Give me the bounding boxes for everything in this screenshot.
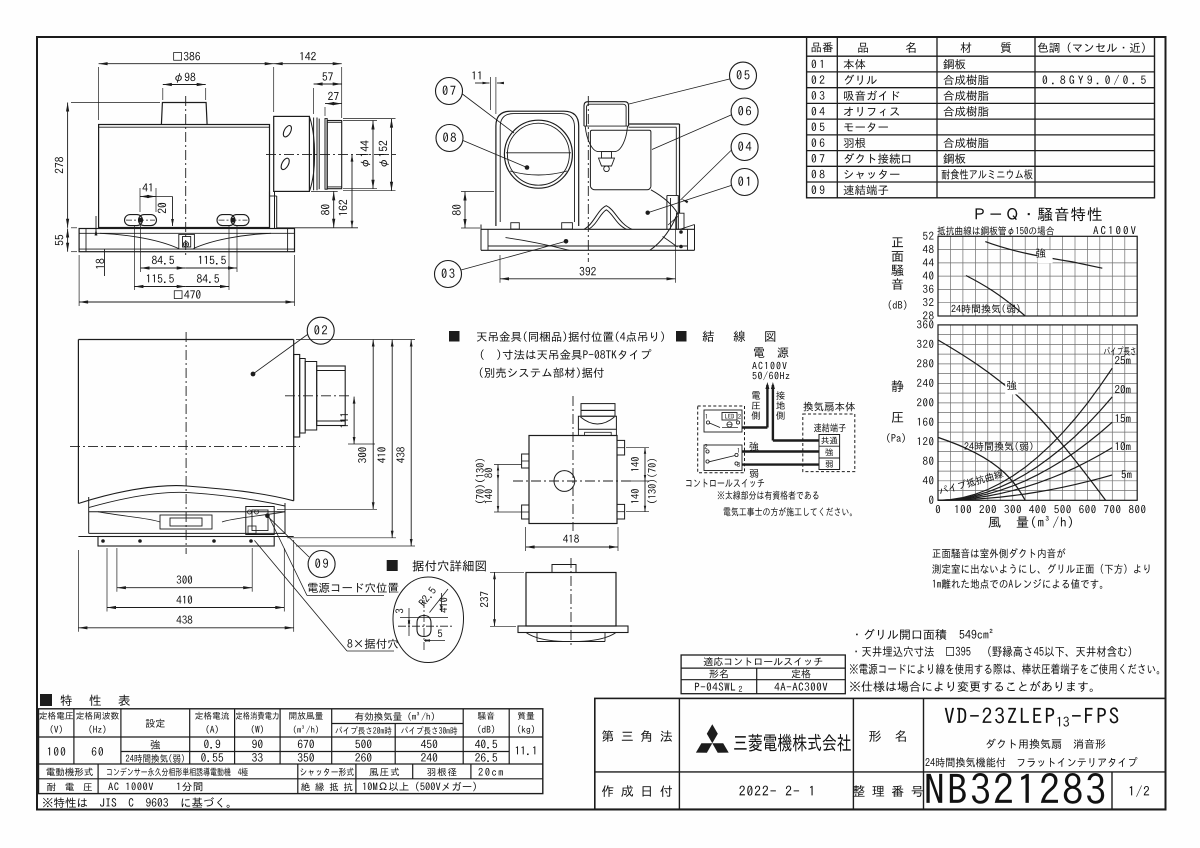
pipe resistance curve 5m [938, 475, 1112, 500]
detail dim 5 [424, 640, 445, 642]
label 形名 [869, 730, 906, 742]
dim 27 [325, 103, 342, 105]
balloon 09 [308, 551, 335, 578]
switch upper contact box [704, 410, 742, 432]
noise chart y labels [923, 311, 934, 319]
switch lower contact box [704, 445, 742, 471]
graph caption AC100V [1093, 226, 1135, 234]
model desc line1 [986, 739, 1105, 749]
section view scroll outlet curve [651, 190, 678, 213]
characteristics title [40, 694, 52, 706]
balloon 03 leader [461, 241, 566, 270]
label 8x据付穴 [347, 638, 397, 648]
section view centerline [587, 96, 589, 262]
dim 386 [99, 63, 274, 65]
note ceiling hole [855, 646, 1131, 657]
detail header [387, 560, 398, 571]
hanger plan centerlines [572, 396, 574, 531]
dim 300 bottom [117, 587, 252, 589]
balloon 02 leader [253, 335, 308, 375]
wiring note header [676, 331, 687, 342]
wiring note line1 [718, 491, 819, 500]
plan view pipe centerline [285, 395, 352, 397]
model desc line2 [925, 757, 1137, 767]
dim 115.5 84.5 row2 [134, 286, 185, 288]
balloon 01 [731, 169, 758, 196]
dim 18 tick [95, 216, 97, 233]
note grille opening area [856, 629, 992, 640]
pipe curve label 5m [1122, 470, 1132, 478]
noise y-axis label 正面騒音(dB) [892, 237, 903, 247]
pipe resistance curve 10m [938, 448, 1112, 501]
pipe curves label パイプ長さ [1104, 346, 1135, 355]
characteristics table data [48, 747, 65, 756]
balloon 04 leader [681, 151, 732, 201]
noise measurement note [933, 548, 1066, 558]
balloon 01 leader [648, 186, 731, 213]
dim 140 right upper [644, 448, 646, 481]
section view motor [584, 102, 629, 126]
dim 80 section [464, 192, 466, 229]
front view grille flange [79, 229, 294, 252]
front view body right step [269, 191, 271, 228]
hanger bracket note [449, 331, 460, 342]
dim (70)(130) left [475, 459, 484, 503]
mounting hole detail figure [393, 577, 464, 663]
pressure curve strong [938, 340, 1106, 500]
front view duct adapter [274, 116, 310, 191]
dim 11 [475, 82, 490, 84]
wire strong [742, 450, 819, 452]
dim 111 [353, 397, 355, 444]
pressure chart grid [937, 325, 939, 500]
small side view [552, 565, 576, 573]
balloon 05 leader [629, 79, 730, 104]
adapter centerline [266, 154, 396, 156]
section view shutter outlet [667, 195, 679, 197]
front view centerline [185, 96, 187, 258]
pressure curve strong label 強 [1005, 382, 1018, 394]
balloon 07 leader [462, 94, 514, 133]
plan view duct pipe [294, 355, 300, 438]
pipe curve label 10m [1116, 442, 1131, 450]
balloon 07 [436, 78, 463, 105]
detail label R2.5 [418, 586, 437, 607]
wiring caption コントロールスイッチ [686, 479, 764, 488]
dim 410 bottom [107, 607, 284, 609]
characteristics table grid [39, 709, 543, 794]
dim 418 [526, 546, 618, 548]
dim 41 [140, 196, 156, 198]
dim 142 [274, 63, 342, 65]
wiring label 電源 [754, 347, 788, 357]
dim 55 [67, 229, 69, 252]
balloon 09 leader [267, 516, 309, 557]
balloon 06 leader [652, 115, 731, 150]
Mitsubishi logo [707, 724, 718, 743]
wire weak [742, 463, 819, 465]
pipe curve label 20m [1115, 385, 1131, 393]
parts table header [812, 42, 833, 52]
title block grid [595, 698, 1166, 809]
characteristics table lower rows [47, 768, 93, 777]
control switch dashed box [698, 406, 745, 473]
wiring label AC100V 50/60Hz [752, 362, 786, 369]
front view keyhole slots [125, 215, 143, 226]
dim 20 [172, 197, 174, 227]
JIS footnote [43, 797, 230, 808]
note spec change [850, 681, 1093, 692]
title block 第三角法 [602, 730, 672, 742]
wiring label 換気扇本体 [803, 402, 854, 412]
dim 278 [67, 103, 69, 228]
noise curve strong [985, 242, 1102, 269]
dim (130)(70) right [647, 459, 656, 503]
quick-connect terminals [819, 435, 840, 470]
detail dim 410 [439, 598, 447, 613]
characteristics table header [39, 712, 73, 720]
noise chart grid [937, 236, 939, 316]
plan view lower mechanism [89, 511, 285, 513]
balloon 06 [731, 98, 758, 125]
dim 438 right [410, 340, 412, 547]
label 電源コード穴位置 [308, 583, 398, 593]
noise curve weak [966, 276, 1025, 317]
section view right bracket [680, 225, 695, 230]
pressure chart frame [938, 325, 1137, 500]
label 整理番号 [853, 785, 923, 797]
parts table rows 01-09 [812, 60, 823, 69]
balloon 02 [307, 317, 334, 344]
wiring label 速結端子 [814, 423, 846, 432]
pipe resistance curve 20m [938, 397, 1112, 501]
pressure y-axis label 静圧(Pa) [892, 380, 904, 392]
dim 80 hanger [497, 465, 499, 482]
dim 470 [79, 301, 294, 303]
applicable control switch table grid [681, 655, 845, 694]
dim phi144 [372, 121, 374, 189]
noise curve weak label [951, 304, 1019, 313]
section view duct plate and impeller ring [496, 111, 579, 226]
pipe curve label 25m [1115, 356, 1131, 364]
plan view body outline [78, 339, 293, 341]
balloon 03 [435, 261, 462, 288]
dim 392 [500, 278, 676, 280]
date 2022-2-1 [739, 786, 812, 796]
x-axis label 風量(m3/h) [989, 516, 1072, 528]
dim 438 bottom [78, 627, 293, 629]
hanger plan view [529, 436, 617, 524]
graph caption resistance-curve note [937, 226, 1054, 235]
graph title P-Q 騒音特性 [976, 207, 1102, 221]
pressure curve weak [938, 437, 1025, 500]
section view body shell [629, 123, 680, 125]
pipe resistance curve 15m [938, 422, 1112, 500]
wiring power lines [766, 385, 768, 428]
wire voltage side [742, 426, 767, 428]
model number VD-23ZLEP13-FPS [945, 707, 1054, 723]
pipe resistance curve 25m [938, 368, 1112, 500]
small side view centerline [570, 558, 572, 648]
wiring label 電圧側 [752, 391, 760, 399]
plan view electrical box [246, 507, 274, 535]
label パイプ抵抗曲線 [938, 469, 1004, 496]
characteristics table lower grid [97, 764, 99, 779]
wiring note line2 [724, 507, 852, 516]
switch table texts [704, 657, 823, 666]
section view orifice [590, 130, 651, 186]
fan body dashed box [803, 414, 855, 472]
balloon 08 [436, 125, 463, 152]
document number NB321283 [926, 773, 1104, 804]
dim 300 right [372, 340, 374, 510]
noise curve strong label 強 [1038, 250, 1053, 263]
noise chart frame [938, 236, 1137, 316]
dim 57 [314, 83, 342, 85]
detail dim 3 [408, 618, 410, 624]
balloon 04 [731, 134, 758, 161]
parts list table grid [807, 37, 1155, 198]
dim 140 left [497, 481, 499, 512]
dim 410 right [391, 340, 393, 538]
dim 162 [351, 155, 353, 228]
dim phi98 [163, 84, 206, 86]
dim 80 adapter [333, 191, 335, 227]
plan view centerlines [185, 332, 187, 554]
label 作成日付 [602, 785, 672, 797]
pipe curve label 15m [1116, 414, 1131, 422]
dim phi152 [391, 119, 393, 191]
dim 84.5 115.5 row1 [141, 267, 186, 269]
note power cord [850, 663, 1159, 674]
front view body [99, 125, 270, 228]
balloon 08 leader [463, 141, 527, 168]
page 1/2 [1130, 785, 1149, 797]
pressure curve weak label [964, 442, 1032, 451]
section view mounting flange [481, 228, 695, 230]
company name 三菱電機株式会社 [734, 734, 851, 752]
balloon 05 [730, 62, 757, 89]
wiring label 接地側 [776, 391, 785, 400]
dim 237 [494, 572, 496, 626]
pressure chart axis labels [929, 496, 933, 504]
section view sound guide dome [584, 206, 632, 230]
dim 140 right lower [644, 481, 646, 512]
wire ground side [773, 439, 819, 441]
